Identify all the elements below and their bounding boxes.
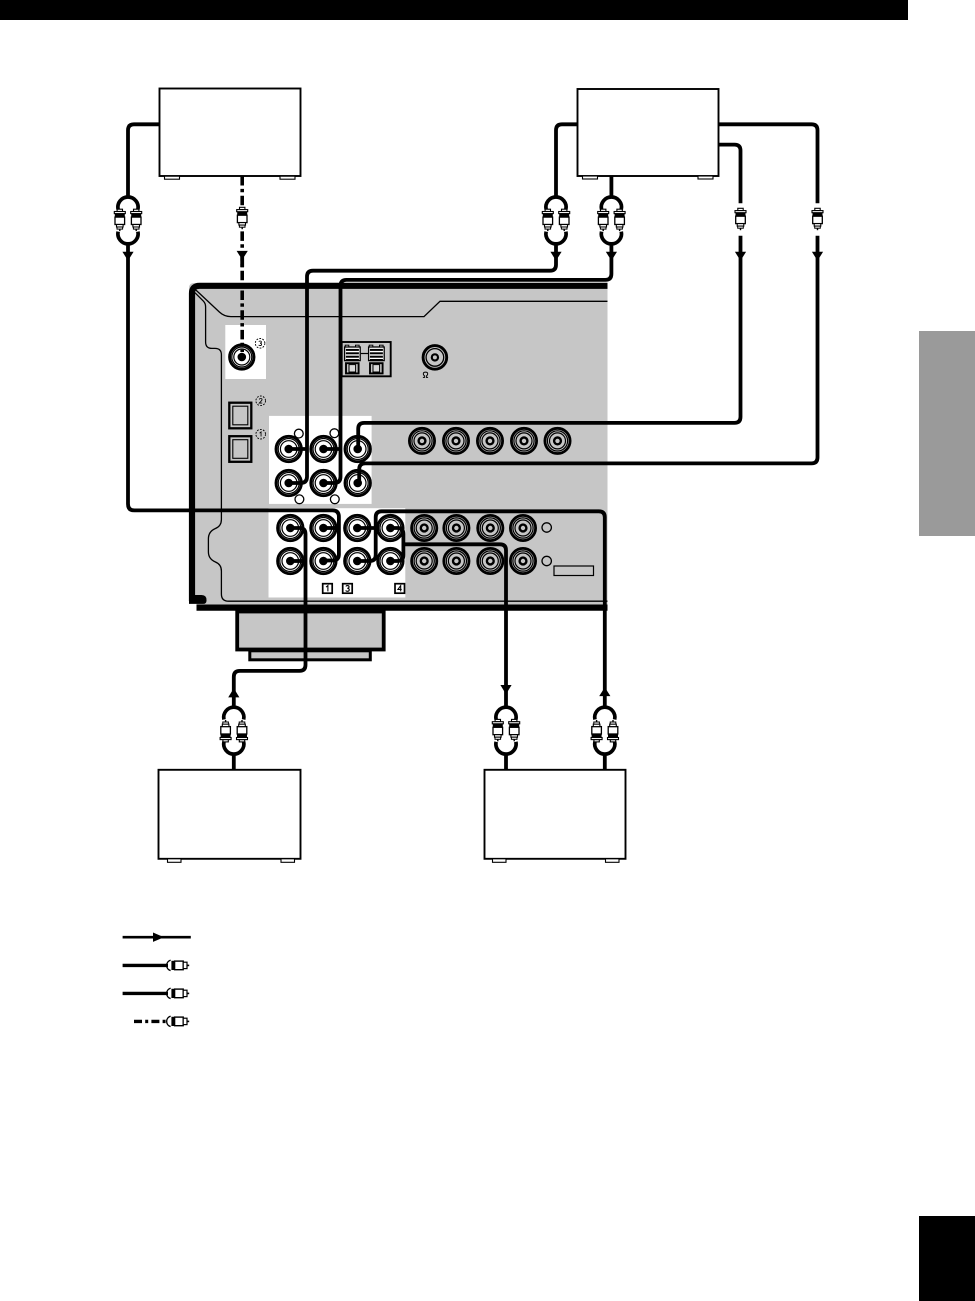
wire W2 lower run to jack U-B1 — [289, 244, 556, 483]
jack L-B4 (lower block row2 col4) — [378, 548, 403, 573]
wire W8 tail into box B4 — [504, 754, 508, 771]
wire W7 (jacks L-A1/L-B1 down to box B3) — [234, 528, 306, 708]
arrow on W9 (up) — [599, 687, 610, 696]
component box B1 (top left device) — [160, 89, 301, 180]
wire W3 upper (box B2 bottom) — [610, 176, 614, 197]
cable C3 (stereo pair on W3) — [598, 197, 625, 244]
wire W2 upper (box B2 left side) — [556, 124, 578, 197]
wire W8 branch down to box B4 — [403, 544, 506, 707]
numbered key square 3 — [343, 584, 353, 594]
receiver panel bottom-left foot — [189, 595, 207, 604]
jack U-B3 (upper block row2 col3) — [345, 470, 370, 495]
cable C5 (stereo pair on W8) — [492, 707, 519, 754]
stub jack U-A2 to W3 — [324, 447, 341, 451]
receiver panel outer border — [192, 286, 608, 601]
jack U-A1 (upper block row1 col1) — [276, 436, 301, 461]
wire W6 dash-dot lower (to phono jack 3) — [240, 231, 244, 352]
wire W8 (jacks L-A4/L-B4 loop) — [390, 528, 403, 561]
wire W4 lower run to jack U-B3 — [359, 236, 817, 483]
jack U-B1 (upper block row2 col1) — [276, 470, 301, 495]
component box B3 (bottom left device) — [159, 770, 301, 863]
cable C4 (stereo pair on W7) — [220, 707, 247, 754]
numbered key square 4 — [395, 584, 405, 594]
antenna spring terminal T1 — [345, 345, 361, 360]
receiver panel inner left edge with cable notch — [195, 293, 608, 602]
jack L-A2 (lower block row1 col2) — [311, 515, 336, 540]
wire W3 lower run to jack U-B2 — [324, 244, 612, 483]
jack U-B2 (upper block row2 col2) — [311, 470, 336, 495]
component box B2 (top right device) — [578, 89, 719, 179]
screw hole circles (lower gray) — [542, 523, 551, 566]
antenna terminal block — [342, 342, 391, 376]
jack G-A1..G-A4 (lower gray row1) — [412, 515, 437, 540]
arrow on W2 — [550, 252, 561, 261]
receiver panel inner top edge — [195, 289, 608, 317]
jack row R1..R5 (mid gray row) — [409, 428, 434, 453]
jack L-A3 (lower block row1 col3) — [345, 515, 370, 540]
jack L-B1 (lower block row2 col1) — [278, 548, 303, 573]
wire W6 dash-dot upper (box B1 bottom to plug) — [240, 176, 244, 207]
wire W4 upper (box B2 right side, outer) — [719, 124, 818, 203]
jack L-A4 (lower block row1 col4) — [378, 515, 403, 540]
antenna push terminal P2 — [370, 363, 383, 373]
plug PL4 on W4 — [812, 208, 823, 230]
legend row 4: optical/coax cable (dash-dot) — [134, 1016, 189, 1026]
cable C1 (stereo pair on W1) — [114, 197, 141, 244]
legend row 3: audio pin cable — [123, 988, 190, 998]
wire W5 lower run to jack U-A3 — [358, 236, 740, 449]
section index tab (right edge) — [919, 331, 975, 536]
jack L-B2 (lower block row2 col2) — [311, 548, 336, 573]
cable C2 (stereo pair on W2) — [542, 197, 569, 244]
plug PL6 on W6 — [237, 207, 248, 229]
page header bar — [0, 0, 908, 20]
phono jack (3) — [230, 345, 254, 369]
wire W1 upper (box B1 left side down to panel) — [128, 124, 160, 197]
stub jack L-A3 to W9 — [357, 526, 377, 530]
antenna spring terminal T2 — [369, 345, 385, 360]
numbered key square 1 — [323, 584, 333, 594]
white panel block (phono jack area) — [225, 325, 266, 379]
page corner block (bottom right) — [919, 1216, 975, 1301]
receiver panel bottom border — [197, 604, 608, 610]
arrow on W4 — [812, 252, 823, 261]
stub jack U-A1 to W2 — [289, 447, 307, 451]
jack G-B1..G-B4 (lower gray row2) — [412, 548, 437, 573]
circled label 3 — [255, 339, 265, 349]
wire W9 tail into box B4 — [603, 754, 607, 771]
wire W5 upper (box B2 right side, inner) — [719, 145, 741, 204]
white panel block (upper jack group) — [269, 416, 372, 504]
jack U-A3 (upper block row1 col3) — [345, 436, 370, 461]
wire W1 lower with panel run to jack L-B2 — [128, 244, 339, 561]
arrow on W6 — [237, 251, 248, 267]
jack U-A2 (upper block row1 col2) — [311, 436, 336, 461]
arrow on W8 (down) — [500, 685, 511, 694]
plug PL5 on W5 — [735, 208, 746, 230]
legend row 2: audio pin cable — [123, 960, 190, 970]
component box B4 (bottom middle device) — [485, 770, 626, 863]
wire W9 (jacks L-A3/L-B3 up over panel and down to box B4) — [357, 511, 605, 707]
arrow on W5 — [735, 252, 746, 261]
FM 75-ohm antenna jack — [423, 346, 447, 378]
jack L-A1 (lower block row1 col1) — [278, 515, 303, 540]
screw hole circles (upper block) — [294, 429, 339, 504]
optical terminal (1) — [229, 436, 251, 462]
power cord housing — [237, 612, 384, 660]
arrow on W3 — [606, 252, 617, 261]
white panel block (lower jack group) — [269, 508, 406, 597]
arrow on W1 — [122, 252, 133, 261]
stub jack L-B1 to W7 — [290, 559, 305, 563]
legend row 1: signal direction arrow — [123, 933, 191, 942]
receiver rear panel body — [189, 283, 608, 610]
wire W7 tail into box B3 — [232, 754, 236, 771]
jack L-B3 (lower block row2 col3) — [345, 548, 370, 573]
cable C6 (stereo pair on W9) — [591, 707, 618, 754]
antenna push terminal P1 — [346, 363, 359, 373]
circled label 1 — [256, 429, 266, 439]
name plate — [554, 566, 594, 576]
arrow on W7 (up) — [228, 688, 239, 697]
optical terminal (2) — [229, 403, 251, 429]
circled label 2 — [256, 396, 266, 406]
stub jack L-A2 to W1 — [323, 526, 339, 530]
